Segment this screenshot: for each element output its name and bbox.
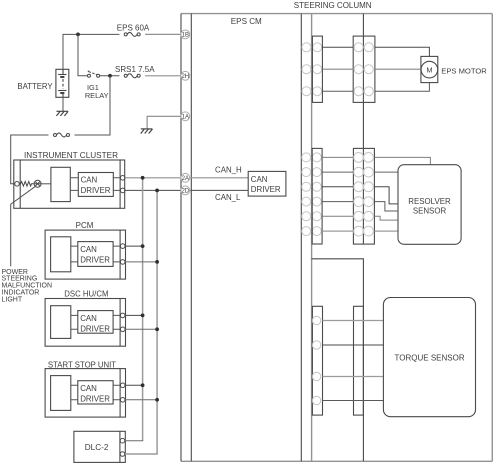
wire CAN_H bus to DLC-2 pin bbox=[125, 440, 143, 442]
wire cluster CAN_L to EPS CM pin 2D bbox=[125, 189, 181, 191]
wire pin 2D to CAN driver bbox=[190, 189, 248, 191]
inline connector block motor bbox=[353, 36, 375, 102]
wire battery to ground bbox=[62, 97, 64, 111]
wire PCM CAN_H stub bbox=[125, 245, 143, 247]
connector block motor column-side bbox=[312, 36, 322, 102]
pin DSC CAN_H bbox=[120, 313, 125, 318]
svg-text:M: M bbox=[426, 65, 432, 74]
inline connector block resolver bbox=[353, 148, 374, 244]
svg-text:CAN: CAN bbox=[80, 245, 97, 254]
EPS CM right edge bbox=[300, 14, 302, 462]
DSC box bbox=[45, 299, 125, 347]
node junction dot at battery branch bbox=[76, 33, 80, 37]
svg-text:RELAY: RELAY bbox=[85, 91, 109, 100]
svg-text:DRIVER: DRIVER bbox=[251, 185, 281, 194]
connector circles EPS CM to column (motor) bbox=[302, 43, 322, 96]
wire resolver 6 bbox=[322, 230, 398, 232]
svg-text:CAN_H: CAN_H bbox=[215, 166, 242, 175]
CAN driver box EPS CM bbox=[248, 171, 286, 196]
wire torque 4 bbox=[323, 400, 384, 402]
wire meter block to CAN driver (two lines) bbox=[70, 178, 78, 191]
pin 1A bbox=[181, 112, 190, 121]
connector circles EPS CM to column (resolver) bbox=[302, 153, 322, 236]
svg-text:2H: 2H bbox=[181, 74, 189, 80]
wire branch from relay down and fused feed to instrument cluster bbox=[11, 76, 110, 184]
ground EPS CM 1A bbox=[141, 129, 153, 134]
wire torque 2 bbox=[323, 344, 384, 346]
torque sensor box bbox=[383, 298, 475, 417]
svg-text:DRIVER: DRIVER bbox=[81, 186, 111, 195]
wire pin 2A to CAN driver bbox=[190, 177, 248, 179]
fuse SRS1 7.5A bbox=[124, 74, 140, 78]
pin instrument cluster supply bbox=[15, 182, 20, 187]
wire CAN_L bus vertical bbox=[125, 190, 157, 454]
wire resolver 2 bbox=[322, 171, 398, 173]
wire resolver 1 bbox=[322, 157, 430, 164]
wire motor phase 3 bbox=[322, 83, 429, 92]
label POWER STEERING MALFUNCTION INDICATOR LIGHT bbox=[2, 269, 53, 304]
wire SSU CAN_L stub bbox=[125, 399, 157, 401]
wires PCM internal bbox=[71, 246, 121, 262]
wire pin 1A to ground bbox=[147, 116, 181, 129]
node dots CAN_L bus bbox=[155, 189, 159, 402]
CAN driver box instrument cluster bbox=[78, 173, 113, 197]
svg-text:DRIVER: DRIVER bbox=[80, 325, 110, 334]
steering column inner sub-box (shaft area) bbox=[312, 259, 364, 462]
wire DSC CAN_L stub bbox=[125, 328, 157, 330]
wires DSC internal bbox=[71, 315, 121, 329]
wire PCM CAN_L stub bbox=[125, 261, 157, 263]
svg-text:CAN_L: CAN_L bbox=[215, 193, 241, 202]
pin PCM CAN_H bbox=[120, 244, 125, 249]
inline connector block torque bbox=[354, 306, 364, 415]
wire resolver 4 bbox=[322, 202, 398, 211]
shared bottom edge bbox=[181, 460, 492, 462]
svg-text:2A: 2A bbox=[182, 176, 189, 182]
EPS CM left edge bbox=[180, 14, 182, 462]
svg-text:BATTERY: BATTERY bbox=[17, 82, 53, 91]
pin 1B bbox=[181, 30, 190, 39]
svg-text:LIGHT: LIGHT bbox=[2, 296, 23, 303]
wire cluster CAN_H to EPS CM pin 2A bbox=[125, 177, 181, 179]
meter block rectangle bbox=[51, 167, 70, 201]
connector circles torque bbox=[312, 316, 320, 404]
svg-text:CAN: CAN bbox=[81, 176, 98, 185]
svg-text:1B: 1B bbox=[182, 33, 189, 39]
svg-text:1A: 1A bbox=[182, 115, 189, 121]
wire motor phase 2 bbox=[322, 68, 421, 70]
instrument cluster box bbox=[14, 160, 125, 208]
wire torque 1 bbox=[323, 320, 384, 322]
node dots CAN_H bus bbox=[141, 176, 145, 387]
battery B1 bbox=[56, 69, 69, 97]
wire relay to fuse SRS1 to pin 2H bbox=[100, 75, 120, 77]
wire CAN_H bus vertical bbox=[142, 178, 144, 441]
pin 2D bbox=[181, 186, 190, 195]
wire torque 3 bbox=[323, 376, 384, 378]
wire junction down to IG1 relay bbox=[78, 34, 88, 75]
relay IG1 contacts bbox=[88, 71, 100, 78]
pin cluster CAN_L bbox=[120, 188, 125, 193]
pin 2A bbox=[181, 173, 190, 182]
svg-text:DSC HU/CM: DSC HU/CM bbox=[64, 289, 108, 298]
svg-text:TORQUE SENSOR: TORQUE SENSOR bbox=[395, 353, 465, 362]
steering column right edge bbox=[491, 14, 493, 462]
connector block resolver column-side bbox=[312, 148, 322, 244]
svg-text:INSTRUMENT CLUSTER: INSTRUMENT CLUSTER bbox=[24, 151, 118, 160]
inline connector circles resolver bbox=[354, 153, 374, 237]
svg-text:RESOLVER: RESOLVER bbox=[408, 197, 451, 206]
EPS motor M1 bbox=[421, 56, 438, 82]
wire resolver 5 bbox=[322, 216, 398, 220]
svg-text:SRS1 7.5A: SRS1 7.5A bbox=[115, 65, 155, 74]
wire DSC CAN_H stub bbox=[125, 314, 143, 316]
DLC-2 box bbox=[74, 431, 125, 462]
svg-text:PCM: PCM bbox=[76, 221, 94, 230]
resolver sensor box bbox=[398, 165, 461, 245]
wire lamp to meter block bbox=[41, 183, 51, 185]
wires SSU internal bbox=[71, 385, 121, 400]
pin PCM CAN_L bbox=[120, 260, 125, 265]
wire motor phase 1 bbox=[322, 47, 429, 56]
svg-text:CAN: CAN bbox=[251, 175, 268, 184]
svg-text:START STOP UNIT: START STOP UNIT bbox=[48, 360, 116, 369]
svg-text:DRIVER: DRIVER bbox=[80, 256, 110, 265]
pointer line to malfunction lamp bbox=[11, 186, 36, 266]
pin DLC-2 CAN_L bbox=[120, 452, 125, 457]
steering column / EPS CM shared top edge bbox=[181, 13, 492, 15]
svg-text:SENSOR: SENSOR bbox=[413, 206, 447, 215]
lamp power steering malfunction indicator bbox=[34, 180, 41, 187]
pin SSU CAN_H bbox=[120, 383, 125, 388]
connector block torque column-side bbox=[312, 306, 322, 415]
wire resolver 3 bbox=[322, 187, 398, 204]
svg-text:DLC-2: DLC-2 bbox=[85, 443, 109, 452]
pin DLC-2 CAN_H bbox=[120, 438, 125, 443]
pin SSU CAN_L bbox=[120, 398, 125, 403]
svg-text:CAN: CAN bbox=[80, 314, 97, 323]
svg-text:STEERING COLUMN: STEERING COLUMN bbox=[294, 1, 372, 10]
pin 2H bbox=[181, 71, 190, 80]
EPS CM pin strip inner line bbox=[190, 14, 192, 462]
svg-text:EPS MOTOR: EPS MOTOR bbox=[441, 67, 487, 76]
PCM box bbox=[45, 230, 125, 279]
svg-text:DRIVER: DRIVER bbox=[80, 395, 110, 404]
node junction dot SRS1 branch bbox=[108, 74, 112, 78]
steering column inner divider upper segment bbox=[362, 14, 364, 245]
wire battery to fuse EPS 60A to pin 1B bbox=[63, 34, 119, 69]
svg-text:EPS 60A: EPS 60A bbox=[117, 24, 150, 33]
fuse meter feed bbox=[54, 133, 70, 137]
pin cluster CAN_H bbox=[120, 176, 125, 181]
fuse EPS 60A bbox=[124, 32, 140, 36]
svg-text:2D: 2D bbox=[181, 189, 189, 195]
inline connector circles motor bbox=[354, 43, 373, 96]
svg-text:EPS CM: EPS CM bbox=[231, 17, 262, 26]
svg-text:CAN: CAN bbox=[80, 384, 97, 393]
wire SSU CAN_H stub bbox=[125, 384, 143, 386]
start stop unit box bbox=[45, 369, 125, 418]
wires CAN driver to cluster pins bbox=[113, 178, 120, 191]
ground battery bbox=[56, 111, 68, 116]
steering column left edge bbox=[311, 14, 313, 462]
resistor in cluster bbox=[19, 182, 34, 187]
pin DSC CAN_L bbox=[120, 327, 125, 332]
